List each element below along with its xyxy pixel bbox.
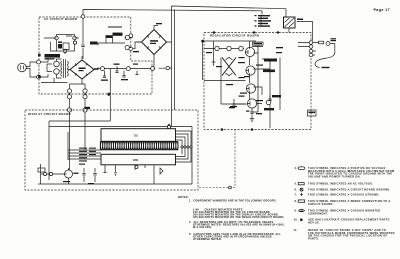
svg-text:ON THE CHASSIS FOR THE PHYSICA: ON THE CHASSIS FOR THE PHYSICAL LOCATION… (308, 234, 387, 238)
svg-text:7.: 7. (295, 193, 298, 197)
svg-text:THIS SYMBOL INDICATES A CIRCUI: THIS SYMBOL INDICATES A CIRCUIT BOARD GR… (308, 188, 391, 192)
svg-text:6.: 6. (295, 188, 298, 192)
svg-text:DISPLAY CIRCUIT BOARD: DISPLAY CIRCUIT BOARD (28, 112, 71, 116)
svg-text:9.: 9. (295, 209, 298, 213)
svg-text:AC CIRCUIT BOARD: AC CIRCUIT BOARD (44, 17, 77, 21)
svg-text:11.: 11. (294, 228, 298, 232)
svg-text:VOLUME AND POWER TURNED ON.: VOLUME AND POWER TURNED ON. (308, 174, 361, 178)
svg-text:4.: 4. (295, 166, 298, 170)
svg-text:M=1,000,000).: M=1,000,000). (193, 225, 212, 229)
svg-text:CIRCUIT BOARD.: CIRCUIT BOARD. (308, 202, 334, 206)
svg-text:Page 17: Page 17 (374, 8, 390, 12)
svg-text:USE ONLY HEATHKIT CHASSIS REPL: USE ONLY HEATHKIT CHASSIS REPLACEMENT PA… (308, 218, 390, 222)
svg-text:1B21: 1B21 (133, 160, 139, 162)
svg-text:OTHERWISE NOTED.: OTHERWISE NOTED. (193, 237, 222, 241)
svg-text:NOTES:: NOTES: (178, 195, 189, 199)
svg-text:5.: 5. (295, 182, 298, 186)
svg-text:10.: 10. (294, 218, 299, 222)
svg-text:THIS SYMBOL INDICATES A CHASSI: THIS SYMBOL INDICATES A CHASSIS GROUND. (308, 193, 380, 197)
svg-text:300-399 PARTS MOUNTED ON THE R: 300-399 PARTS MOUNTED ON THE REGULATOR C… (193, 215, 284, 219)
svg-text:REGULATOR CIRCUIT BOARD: REGULATOR CIRCUIT BOARD (210, 33, 259, 37)
svg-text:COMPONENT.: COMPONENT. (308, 211, 328, 215)
svg-text:8.: 8. (295, 199, 298, 203)
svg-text:THIS SYMBOL INDICATES AN AC VO: THIS SYMBOL INDICATES AN AC VOLTAGE. (308, 182, 373, 186)
svg-text:PARTS.: PARTS. (308, 236, 319, 240)
svg-text:HEV-35.: HEV-35. (308, 220, 320, 224)
svg-text:1. COMPONENT NUMBERS ARE IN T: 1. COMPONENT NUMBERS ARE IN THE FOLLOWIN… (189, 199, 277, 203)
